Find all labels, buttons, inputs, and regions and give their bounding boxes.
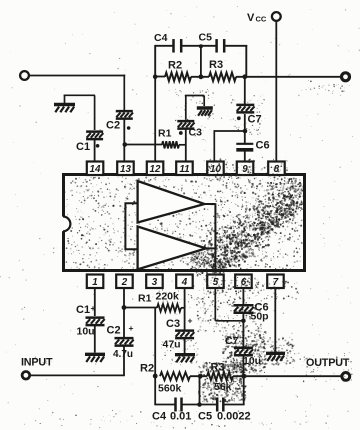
wire C6 to node — [242, 313, 244, 321]
wire C4 to C5 — [183, 404, 217, 406]
wire C5 right and down — [225, 45, 247, 47]
svg-text:C2: C2 — [107, 325, 121, 337]
terminal OUTPUT — [342, 373, 350, 381]
wire pin6 to C6 (bottom) — [242, 288, 244, 305]
pin 11 (top) — [176, 162, 193, 176]
svg-text:R3: R3 — [209, 59, 223, 71]
wire C4C5 mid tap — [200, 46, 202, 77]
wire bottom loop left — [154, 404, 174, 406]
terminal right — [342, 73, 350, 81]
svg-text:R1: R1 — [138, 293, 152, 305]
capacitor C2 (bottom) — [115, 337, 134, 340]
wire pin1 to C1 (bottom) — [94, 288, 96, 316]
resistor R3 (top) — [209, 73, 236, 81]
resistor R3 56k (bottom) — [207, 372, 233, 380]
wire node to pin 5 — [215, 320, 243, 322]
wire C1 to ground — [94, 326, 96, 353]
svg-text:12: 12 — [150, 164, 161, 175]
wire pin2 to C2 (bottom) — [123, 288, 125, 337]
svg-text:C3: C3 — [166, 318, 180, 330]
svg-text:4: 4 — [181, 277, 188, 288]
svg-text:R2: R2 — [168, 60, 182, 72]
wire R3 node down to C7 — [244, 77, 246, 105]
wire R1 to pin-11 line — [179, 144, 186, 146]
svg-text:10u: 10u — [77, 326, 95, 338]
wire ground to C1 (top) — [64, 95, 66, 103]
pin 2 (bottom) — [116, 275, 133, 289]
capacitor C3 (bottom) — [175, 329, 194, 332]
svg-text:1: 1 — [92, 277, 97, 288]
terminal INPUT — [22, 372, 30, 380]
svg-text:C4: C4 — [154, 32, 168, 44]
svg-text:OUTPUT: OUTPUT — [306, 357, 350, 369]
svg-text:C7: C7 — [225, 335, 239, 347]
node junction R2 left — [153, 374, 158, 379]
svg-text:C5: C5 — [198, 411, 212, 423]
svg-text:13: 13 — [120, 164, 131, 175]
capacitor C7 (top) — [236, 104, 254, 107]
svg-text:C6: C6 — [256, 140, 270, 152]
svg-text:R2: R2 — [140, 363, 154, 375]
wire C4 to C5 — [182, 45, 215, 47]
capacitor C1 (top) — [86, 130, 103, 133]
wire Vcc to pin 8 — [275, 21, 277, 162]
capacitor C6 (bottom) — [234, 304, 254, 307]
capacitor C6 (top) — [244, 131, 246, 143]
wire C4C5 mid up to R2R3 node — [199, 376, 201, 404]
internal left box — [125, 203, 137, 249]
svg-text:560k: 560k — [158, 383, 182, 395]
IC body rectangle — [64, 175, 305, 271]
polarity mark C2 (top) — [127, 126, 131, 130]
pin 1 (bottom) — [87, 275, 104, 289]
wire C3 to pin 11 — [185, 130, 187, 162]
node junction C7/C6/pin10 — [243, 129, 248, 134]
pin 5 (bottom) — [207, 275, 224, 289]
svg-text:14: 14 — [90, 164, 101, 175]
wire R1 branch (top) — [125, 144, 162, 146]
svg-text:+: + — [129, 323, 134, 333]
terminal left input — [20, 71, 29, 80]
capacitor C1 (bottom) — [86, 316, 105, 319]
resistor R1 220k (bottom) — [157, 304, 181, 312]
wire bottom loop right — [224, 404, 244, 406]
svg-text:C4: C4 — [152, 411, 167, 423]
svg-text:11: 11 — [179, 164, 189, 175]
svg-text:10u: 10u — [243, 355, 261, 367]
capacitor C7 (bottom) — [234, 346, 253, 349]
pin 12 (top) — [147, 162, 164, 176]
wire node down to C7 (bottom) — [242, 321, 244, 347]
wire C7 to node — [244, 114, 246, 131]
svg-text:0.01: 0.01 — [170, 411, 191, 423]
resistor R2 560k (bottom) — [160, 372, 190, 380]
svg-text:R3: R3 — [211, 362, 225, 374]
resistor R2 (top) — [165, 73, 191, 81]
node junction R3/C7 (top) — [242, 74, 247, 79]
wire tap down from R1 node — [154, 308, 156, 405]
wire C7 to OUTPUT line — [242, 355, 244, 376]
wire R3 to OUTPUT — [233, 375, 342, 377]
wire internal bus to pin 5 — [214, 203, 216, 270]
pin 3 (bottom) — [146, 275, 163, 289]
pin 4 (bottom) — [176, 275, 193, 289]
svg-text:50p: 50p — [251, 311, 269, 323]
node junction R2/R3 (top) — [199, 74, 204, 79]
svg-text:C2: C2 — [106, 120, 120, 132]
node C4C5 mid — [199, 44, 203, 48]
wire node to R1 (bottom) — [124, 307, 157, 309]
terminal Vcc — [272, 12, 281, 21]
wire between R2 R3 — [191, 76, 209, 78]
node junction R2/R3 (bottom) — [198, 374, 203, 379]
ground (below pin 7) — [266, 352, 285, 355]
svg-text:C1: C1 — [76, 304, 90, 316]
op-amp lower triangle — [138, 227, 206, 270]
svg-text:INPUT: INPUT — [21, 357, 53, 369]
svg-text:C1: C1 — [76, 141, 90, 153]
pin 7 (bottom) — [267, 275, 284, 289]
svg-text:3: 3 — [152, 277, 158, 288]
svg-text:47u: 47u — [163, 339, 181, 351]
polarity mark C1 (top) — [96, 144, 100, 148]
capacitor C4 (top) — [172, 39, 175, 53]
wire C2 to INPUT line — [123, 347, 125, 375]
ground (below C1 bottom) — [85, 353, 105, 356]
wire node to pin 10 — [214, 130, 245, 132]
op-amp upper triangle — [138, 181, 205, 223]
wire C6 to pin 9 — [244, 151, 246, 162]
node rail left — [153, 75, 158, 80]
svg-text:C3: C3 — [189, 127, 203, 139]
svg-text:+: + — [188, 316, 193, 326]
wire R2 to R3 — [190, 375, 207, 377]
wire INPUT to C2 (bottom) — [31, 374, 125, 376]
wire R1 to pin4 line — [181, 307, 185, 309]
wire lower apex to bus — [206, 247, 215, 249]
svg-text:R1: R1 — [158, 128, 172, 140]
pin 9 (top) — [237, 162, 254, 176]
polarity mark C7 (top) — [237, 116, 241, 120]
pin 13 (top) — [117, 162, 134, 176]
ground (top-left) — [54, 103, 75, 106]
capacitor C5 (bottom) — [216, 398, 219, 412]
svg-text:10: 10 — [210, 164, 221, 175]
svg-text:C5: C5 — [199, 32, 213, 44]
wire C1 to pin 14 — [94, 140, 96, 162]
wire pin4 down to C3 (bottom) — [184, 288, 186, 330]
ground (near C3 top) — [197, 106, 213, 109]
svg-text:0.0022: 0.0022 — [217, 411, 251, 423]
resistor R1 (top) — [162, 141, 179, 148]
wire R3 to right terminal — [236, 76, 341, 78]
node junction pin2/R1 (bottom) — [122, 305, 127, 310]
svg-text:2: 2 — [121, 277, 128, 288]
pin 10 (top) — [207, 162, 224, 176]
svg-text:V: V — [247, 12, 255, 24]
svg-text:220k: 220k — [156, 291, 180, 303]
svg-text:4.7u: 4.7u — [113, 349, 133, 360]
node junction C7/OUTPUT — [241, 374, 246, 379]
wire C2 to pin 13 — [123, 120, 125, 162]
svg-text:+: + — [91, 303, 96, 313]
wire pin12 riser — [154, 77, 156, 162]
pin 8 (top) — [268, 162, 285, 176]
capacitor C2 (top) — [116, 110, 133, 113]
wire C4C5 rail left — [155, 45, 172, 47]
node junction C4/C5 — [197, 402, 202, 407]
wire C3 to ground — [184, 339, 186, 353]
wire pin7 to ground — [274, 288, 276, 352]
wire C3 top to ground (top) — [185, 96, 187, 120]
capacitor C5 (top) — [215, 39, 218, 53]
node junction C6/pin5/C7 — [241, 319, 246, 324]
IC notch — [62, 217, 66, 232]
svg-text:56k: 56k — [214, 381, 232, 393]
ground (below C3 bottom) — [175, 353, 195, 356]
pin 6 (bottom) — [235, 275, 252, 289]
capacitor C3 (top) — [177, 120, 194, 123]
node junction C2/R1 (top) — [123, 142, 128, 147]
wire left terminal to C2 top — [29, 75, 125, 77]
polarity mark C3 (top) — [179, 131, 183, 135]
svg-text:CC: CC — [256, 15, 267, 24]
wire upper apex to bus — [205, 203, 216, 205]
pin 14 (top) — [87, 162, 104, 176]
wire resistor rail left segment — [155, 76, 165, 78]
capacitor C4 (bottom) — [174, 398, 177, 412]
svg-text:C7: C7 — [248, 114, 262, 126]
